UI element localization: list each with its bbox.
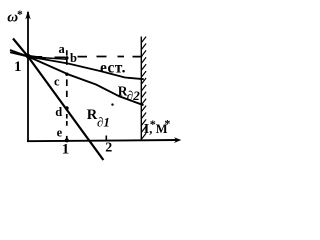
wall (limit line, hatched) xyxy=(140,37,142,142)
svg-text:b: b xyxy=(70,51,77,65)
convergence blob at point 1 xyxy=(26,54,31,59)
svg-text:,: , xyxy=(149,122,152,136)
svg-text:a: a xyxy=(59,42,66,56)
svg-text:d: d xyxy=(55,105,62,119)
svg-text:*: * xyxy=(17,9,23,21)
y-axis xyxy=(27,12,29,142)
x-axis arrowhead xyxy=(174,137,181,143)
svg-text:∂1: ∂1 xyxy=(97,114,110,129)
point a xyxy=(65,56,69,60)
x-axis xyxy=(27,140,177,141)
small scan speck xyxy=(111,103,113,105)
svg-text:e: e xyxy=(57,126,63,140)
line R_d2 xyxy=(10,50,144,105)
dashed horizontal line at omega*=1 xyxy=(30,56,142,59)
svg-text:∂2: ∂2 xyxy=(127,88,140,103)
y-axis arrowhead xyxy=(25,11,30,20)
svg-text:1: 1 xyxy=(62,141,70,157)
natural characteristic line (ect.) xyxy=(10,52,144,79)
svg-text:1: 1 xyxy=(14,59,22,75)
line R_d1 xyxy=(13,39,103,161)
point on x-axis at 1 xyxy=(65,138,69,142)
short line from 1 to point b xyxy=(28,57,67,60)
svg-text:2: 2 xyxy=(105,140,112,155)
point c xyxy=(65,73,68,76)
svg-text:ест.: ест. xyxy=(100,60,126,77)
point d xyxy=(65,106,69,110)
wall hatching xyxy=(141,37,146,140)
svg-text:c: c xyxy=(54,74,60,88)
dashed vertical line at I*=1 xyxy=(66,50,68,139)
tick at 2 on x-axis xyxy=(105,136,107,142)
svg-text:*: * xyxy=(164,117,170,131)
